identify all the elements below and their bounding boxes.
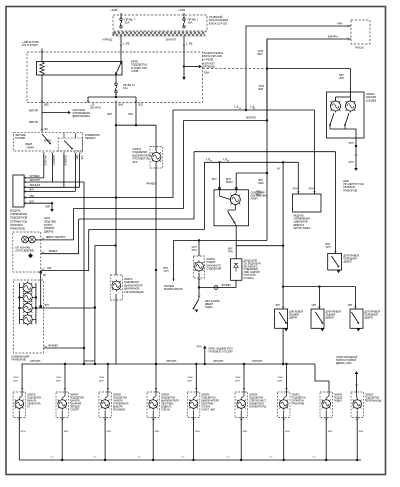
svg-text:СТЕКЛА: СТЕКЛА <box>161 409 170 412</box>
svg-text:ВКР: ВКР <box>46 206 51 209</box>
svg-text:ЧРН: ЧРН <box>155 431 160 433</box>
svg-text:ЧРН/БЕЛ: ЧРН/БЕЛ <box>221 285 231 287</box>
svg-text:+12В: +12В <box>178 8 185 12</box>
svg-text:ЧРН: ЧРН <box>337 22 342 26</box>
svg-text:ВЫКЛЮЧАТЕЛЯ: ВЫКЛЮЧАТЕЛЯ <box>161 400 179 403</box>
svg-text:МОДУЛЬ: МОДУЛЬ <box>10 210 21 213</box>
svg-text:ОРН/: ОРН/ <box>56 377 62 379</box>
svg-text:ДВЕРИ: ДВЕРИ <box>326 317 334 320</box>
svg-text:СТЕКЛООЧИСТ.: СТЕКЛООЧИСТ. <box>249 401 267 403</box>
svg-text:ОТДЕЛЕНИЯ: ОТДЕЛЕНИЯ <box>207 268 222 271</box>
svg-text:ВЛ/БЕЛ: ВЛ/БЕЛ <box>49 251 58 253</box>
svg-text:ВЛУ: ВЛУ <box>228 249 233 251</box>
svg-text:ЧРН/БЕЛ: ЧРН/БЕЛ <box>48 346 58 348</box>
svg-text:ПРИБОРОВ: ПРИБОРОВ <box>12 359 26 362</box>
svg-text:ОРН/ЧРН: ОРН/ЧРН <box>166 361 177 363</box>
svg-text:ЧРН: ЧРН <box>187 381 192 383</box>
svg-text:ЛАМПА: ЛАМПА <box>113 394 122 397</box>
svg-text:ТЕМПЕРАТУРЫ: ТЕМПЕРАТУРЫ <box>249 406 266 409</box>
svg-text:ЛАМПА: ЛАМПА <box>365 394 374 397</box>
svg-text:ЧРН: ЧРН <box>347 305 352 307</box>
svg-text:ВКР/ЧР: ВКР/ЧР <box>29 120 38 124</box>
svg-text:ВКР/ЧР: ВКР/ЧР <box>29 109 38 113</box>
svg-text:ЧРН: ЧРН <box>56 381 61 383</box>
svg-text:ЧРН: ЧРН <box>192 249 197 252</box>
svg-text:БАГАЖНОГО: БАГАЖНОГО <box>244 265 258 268</box>
svg-text:ЛАМПА: ЛАМПА <box>201 394 210 397</box>
svg-text:ПАНЕЛИ: ПАНЕЛИ <box>113 400 123 403</box>
svg-text:ОЧИСТ. ФАР: ОЧИСТ. ФАР <box>201 409 215 412</box>
svg-text:В66: В66 <box>119 103 124 107</box>
svg-text:ВКЛ/: ВКЛ/ <box>226 179 231 181</box>
svg-text:1_В: 1_В <box>206 159 211 161</box>
svg-text:15А: 15А <box>188 21 193 25</box>
svg-text:РЕЖИМОВ: РЕЖИМОВ <box>113 410 126 412</box>
svg-text:ПРИБОРОВ): ПРИБОРОВ) <box>10 228 25 231</box>
svg-text:УПРАВЛЕНИЯ: УПРАВЛЕНИЯ <box>113 403 129 406</box>
svg-text:СЕЛЕКТОРА: СЕЛЕКТОРА <box>27 403 41 406</box>
svg-text:ПОДСВ.: ПОДСВ. <box>334 398 343 400</box>
svg-text:(СЗАДИ): (СЗАДИ) <box>366 99 376 102</box>
svg-text:ФАР: ФАР <box>133 161 138 164</box>
svg-text:ПРИКУРИВ.: ПРИКУРИВ. <box>292 404 305 406</box>
svg-text:ПАНЕЛЬЮ: ПАНЕЛЬЮ <box>10 224 23 227</box>
svg-text:СЛОВ: СЛОВ <box>131 69 139 73</box>
svg-text:ОРН/ЧРН: ОРН/ЧРН <box>252 361 263 363</box>
svg-text:ЛАМПА: ЛАМПА <box>70 394 79 397</box>
svg-text:ПРОВОДУ: ПРОВОДУ <box>203 65 216 68</box>
svg-text:ЛАМПА: ЛАМПА <box>334 394 343 397</box>
svg-text:ДВЕРН. ВЫКЛЮЧ.: ДВЕРН. ВЫКЛЮЧ. <box>46 237 66 239</box>
svg-text:ПОДСВЕТКИ: ПОДСВЕТКИ <box>201 398 215 400</box>
svg-text:ЧРН: ЧРН <box>359 431 364 433</box>
svg-text:ЛАМПА: ЛАМПА <box>249 394 258 397</box>
svg-text:ЛАМПА: ЛАМПА <box>292 394 301 397</box>
svg-text:ГЛВ: ГЛВ <box>80 155 83 160</box>
svg-text:ЧРН: ЧРН <box>64 431 69 433</box>
svg-text:УПРАВЛЕНИЯ: УПРАВЛЕНИЯ <box>10 213 27 216</box>
svg-text:ВЛ/ЧРН: ВЛ/ЧРН <box>328 35 338 39</box>
svg-text:ВКЛ/ГЛВ: ВКЛ/ГЛВ <box>246 117 256 120</box>
svg-text:ЧРН: ЧРН <box>107 113 112 116</box>
svg-text:ВЫКЛЮЧАТЕЛЯ: ВЫКЛЮЧАТЕЛЯ <box>164 288 183 291</box>
svg-text:ГРУЗОВОГО ОТСЕКА: ГРУЗОВОГО ОТСЕКА <box>209 351 234 354</box>
svg-text:ОРН/: ОРН/ <box>235 377 241 379</box>
svg-text:1_РВ: 1_РВ <box>186 42 193 46</box>
svg-text:И РЕЛЕ: И РЕЛЕ <box>204 57 214 61</box>
svg-text:В5: В5 <box>45 127 49 131</box>
svg-text:ДВЕРИ): ДВЕРИ) <box>44 231 53 234</box>
svg-text:ПОДСВЕТКИ: ПОДСВЕТКИ <box>365 398 379 400</box>
svg-text:(СПРАВА ПОД: (СПРАВА ПОД <box>10 220 27 223</box>
svg-text:ЧРН: ЧРН <box>326 246 331 249</box>
svg-text:ПЕПЕЛЬНИЦЫ: ПЕПЕЛЬНИЦЫ <box>365 401 381 403</box>
svg-text:ОРН/: ОРН/ <box>278 377 284 379</box>
svg-text:ПРИБОРОВ): ПРИБОРОВ) <box>343 189 357 192</box>
svg-text:ОРН/ЧРН: ОРН/ЧРН <box>213 361 224 363</box>
svg-text:В55: В55 <box>44 103 49 107</box>
svg-text:ОБОГРЕВА: ОБОГРЕВА <box>161 403 174 406</box>
svg-text:ГЛВ: ГЛВ <box>47 268 52 270</box>
svg-text:ЧРН: ЧРН <box>311 305 316 307</box>
svg-text:(ОТКР. ДВЕРЕЙ): (ОТКР. ДВЕРЕЙ) <box>16 250 35 253</box>
svg-text:ЧРН: ЧРН <box>228 252 233 254</box>
svg-text:ЧРН: ЧРН <box>243 431 248 433</box>
svg-text:ЧРН: ЧРН <box>21 431 26 433</box>
svg-text:ЛАМП: ЛАМП <box>251 198 258 201</box>
svg-text:ЧРН: ЧРН <box>195 431 200 433</box>
svg-text:СИГНАЛИЗАЦИИ: СИГНАЛИЗАЦИИ <box>124 291 144 294</box>
svg-text:ВКЛ: ВКЛ <box>212 179 217 181</box>
svg-text:ОРН/: ОРН/ <box>99 377 105 379</box>
svg-text:ЧРН: ЧРН <box>328 431 333 433</box>
svg-text:СВ. ВОДИТЕЛЯ: СВ. ВОДИТЕЛЯ <box>244 263 261 265</box>
svg-text:БЛОК (СР-03): БЛОК (СР-03) <box>209 21 227 25</box>
svg-text:РЫЧАГА: РЫЧАГА <box>27 400 37 403</box>
svg-text:ПАНЕЛИ: ПАНЕЛИ <box>70 400 80 403</box>
svg-text:ПОДСВЕТКИ: ПОДСВЕТКИ <box>70 398 84 400</box>
svg-text:ЧРН: ЧРН <box>235 381 240 383</box>
svg-text:ОРН/ЧРН: ОРН/ЧРН <box>84 361 95 363</box>
svg-text:СТЕКЛА: СТЕКЛА <box>201 406 210 409</box>
svg-text:ДВЕРИ: ДВЕРИ <box>365 317 373 320</box>
svg-text:(ЛЕВ. ЗАДНИЙ: (ЛЕВ. ЗАДНИЙ <box>244 271 260 274</box>
svg-text:ДВЕРИ: ДВЕРИ <box>344 261 352 264</box>
svg-text:ОБОГРЕВА: ОБОГРЕВА <box>201 403 214 406</box>
svg-text:ВЛ-ЖЛТ: ВЛ-ЖЛТ <box>166 38 177 42</box>
svg-text:ON И START: ON И START <box>22 43 38 47</box>
svg-text:ПОДСВЕТКИ: ПОДСВЕТКИ <box>292 398 306 400</box>
svg-text:ДВЕРИ) G303: ДВЕРИ) G303 <box>336 362 352 365</box>
svg-text:ДИОД ЦЕПИ: ДИОД ЦЕПИ <box>244 261 258 263</box>
svg-text:ЧРН: ЧРН <box>278 381 283 383</box>
svg-text:ОМЫВАТЕЛЯ: ОМЫВАТЕЛЯ <box>249 403 264 406</box>
svg-text:+ПРЖД: +ПРЖД <box>102 38 112 42</box>
svg-text:ЧРН: ЧРН <box>107 431 112 433</box>
svg-text:ПОДСВЕТКОЙ: ПОДСВЕТКОЙ <box>10 217 27 220</box>
svg-text:СУПОРТ: СУПОРТ <box>70 410 80 412</box>
svg-text:ЧРН: ЧРН <box>197 346 202 349</box>
svg-text:ОРН/: ОРН/ <box>187 377 193 379</box>
svg-text:ОТДЕЛЕНИЯ: ОТДЕЛЕНИЯ <box>244 269 259 271</box>
svg-text:БЕЛ: БЕЛ <box>258 53 263 56</box>
svg-text:ДВИГАТЕЛЕМ: ДВИГАТЕЛЕМ <box>73 114 90 118</box>
svg-text:ВЫКЛЮЧАТЕЛЯ: ВЫКЛЮЧАТЕЛЯ <box>201 400 219 403</box>
svg-text:10А: 10А <box>123 86 128 90</box>
svg-text:ЧРН: ЧРН <box>275 305 280 307</box>
svg-text:БЕЛ: БЕЛ <box>259 88 264 91</box>
svg-text:ПИКАНИЯ: ПИКАНИЯ <box>70 403 81 406</box>
svg-text:ДВЕРИ: ДВЕРИ <box>289 317 297 320</box>
svg-text:РАДИО: РАДИО <box>334 400 342 403</box>
svg-text:ВЫБОРА: ВЫБОРА <box>113 406 123 409</box>
svg-text:ВЫЛ: ВЫЛ <box>259 182 265 185</box>
svg-text:УГОЛ ГРУЗ.: УГОЛ ГРУЗ. <box>244 275 257 277</box>
svg-text:ПОДСВЕТКИ: ПОДСВЕТКИ <box>249 398 263 400</box>
svg-text:ОБА: ОБА <box>204 72 210 75</box>
svg-text:ЧРН: ЧРН <box>309 188 314 191</box>
svg-text:20А: 20А <box>125 21 130 25</box>
svg-text:ПОДСВЕТКИ: ПОДСВЕТКИ <box>27 398 41 400</box>
svg-text:ЧРН: ЧРН <box>128 113 133 116</box>
svg-text:1_В: 1_В <box>234 106 239 109</box>
svg-text:ПОДСВЕТКИ: ПОДСВЕТКИ <box>161 398 175 400</box>
svg-text:В22: В22 <box>139 103 144 107</box>
svg-text:ЦЕНТР. ЗАМКА: ЦЕНТР. ЗАМКА <box>294 227 311 230</box>
svg-text:ЛАМПА: ЛАМПА <box>27 394 36 397</box>
svg-text:ЧРН: ЧРН <box>44 305 49 307</box>
svg-text:ОТСЕКА): ОТСЕКА) <box>244 277 254 280</box>
svg-text:ОРН/: ОРН/ <box>13 377 19 379</box>
svg-text:ОРН/ЧРН: ОРН/ЧРН <box>30 361 41 363</box>
svg-text:ПЕРЕКЛ.: ПЕРЕКЛ. <box>85 136 96 140</box>
svg-text:ЧРН/БЕЛ: ЧРН/БЕЛ <box>146 183 157 186</box>
svg-text:ЗЕЛ/ЖЕЛ: ЗЕЛ/ЖЕЛ <box>30 184 41 187</box>
svg-text:ЧРН: ЧРН <box>293 188 298 191</box>
svg-text:1_В: 1_В <box>250 106 255 109</box>
svg-text:ЧРН: ЧРН <box>164 270 169 273</box>
svg-text:ЧРН: ЧРН <box>13 381 18 383</box>
svg-text:ГАБАР: ГАБАР <box>27 147 35 150</box>
svg-text:ЧАСЫ: ЧАСЫ <box>355 46 364 50</box>
svg-text:+12В: +12В <box>110 8 117 12</box>
svg-text:СИГАРЕТН.: СИГАРЕТН. <box>292 400 305 403</box>
svg-text:1_РВ: 1_РВ <box>123 42 130 46</box>
svg-text:ЗАДКА: ЗАДКА <box>205 306 213 309</box>
svg-text:ЧРН: ЧРН <box>349 142 354 145</box>
svg-text:ПЕРЕДН.: ПЕРЕДН. <box>70 407 80 409</box>
svg-text:ЧРН: ЧРН <box>285 431 290 433</box>
svg-text:ЧРН: ЧРН <box>339 77 344 80</box>
svg-text:(КЛ МОТ): (КЛ МОТ) <box>90 106 101 109</box>
svg-text:ЗАДНЕГО: ЗАДНЕГО <box>161 406 172 409</box>
svg-text:ГОЛОВН.: ГОЛОВН. <box>15 137 26 140</box>
svg-text:ЛАМПА: ЛАМПА <box>161 394 170 397</box>
svg-text:ВЫКЛ: ВЫКЛ <box>226 182 233 184</box>
svg-text:1_В: 1_В <box>223 159 228 161</box>
svg-text:ЧРН: ЧРН <box>349 161 354 164</box>
svg-text:ЧРН: ЧРН <box>99 381 104 383</box>
svg-text:ПОДСВЕТКИ: ПОДСВЕТКИ <box>113 398 127 400</box>
